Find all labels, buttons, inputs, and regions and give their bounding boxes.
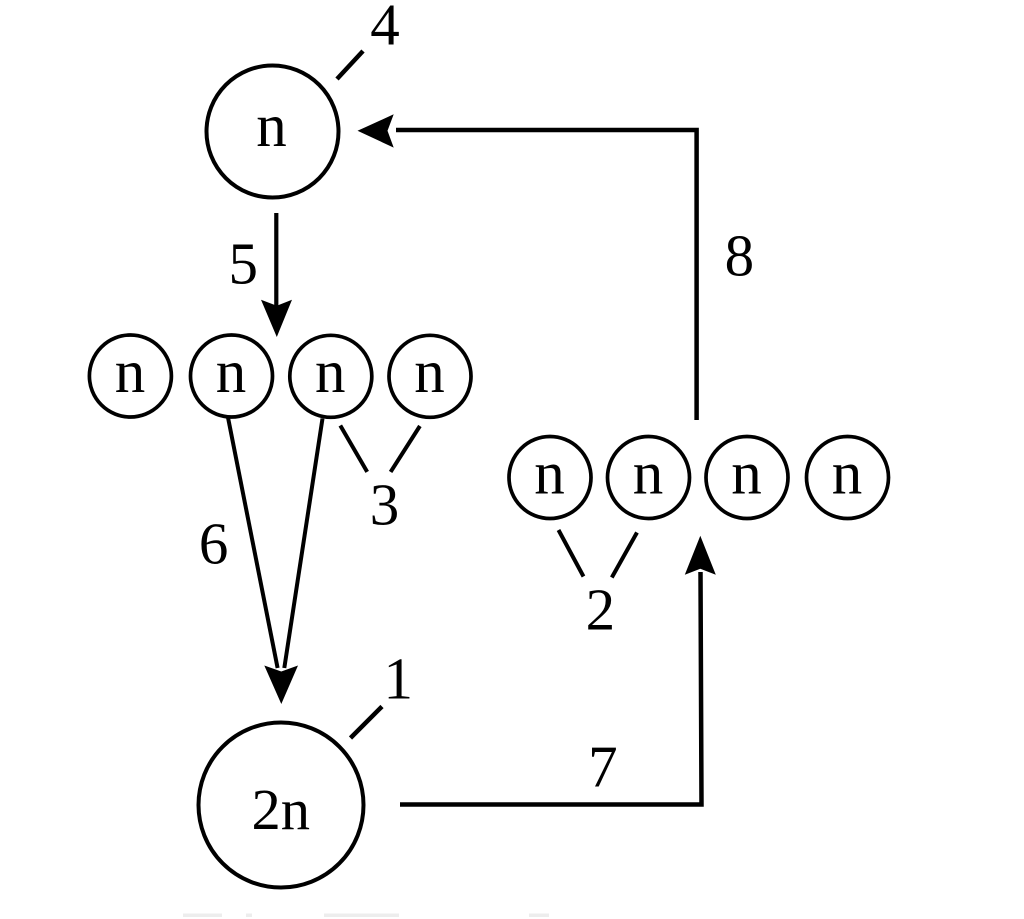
arrow 7 shaft (right then up)	[400, 572, 702, 805]
arrow 6 left shaft	[228, 418, 278, 669]
svg-text:n: n	[115, 339, 146, 406]
node top cell circle (n)	[207, 66, 339, 198]
brace line 3 left	[340, 426, 367, 472]
svg-text:1: 1	[383, 646, 413, 712]
svg-text:2: 2	[586, 577, 616, 643]
svg-text:8: 8	[725, 222, 755, 288]
brace line 2 right	[612, 533, 637, 578]
faint cropped caption marks at bottom	[183, 914, 549, 918]
svg-text:n: n	[256, 93, 287, 160]
brace line 2 left	[559, 530, 584, 577]
svg-text:3: 3	[370, 472, 400, 538]
tick line to label 4	[337, 51, 363, 79]
arrow 8 head	[358, 114, 394, 147]
node right row cell 1 (n)	[509, 437, 591, 519]
tick line to label 1	[351, 707, 383, 739]
svg-text:n: n	[731, 441, 762, 508]
node left row cell 3 (n)	[290, 335, 372, 417]
svg-text:n: n	[832, 441, 863, 508]
node right row cell 2 (n)	[608, 437, 690, 519]
node left row cell 4 (n)	[389, 335, 471, 417]
svg-text:7: 7	[588, 734, 618, 800]
brace line 3 right	[391, 426, 420, 472]
arrow 8 shaft (up then left)	[396, 130, 697, 420]
svg-text:n: n	[633, 441, 664, 508]
svg-text:2n: 2n	[251, 777, 310, 842]
svg-text:n: n	[414, 339, 445, 406]
svg-text:n: n	[534, 441, 565, 508]
arrow 5 head	[261, 300, 292, 337]
svg-text:4: 4	[370, 0, 400, 58]
svg-text:6: 6	[199, 511, 229, 577]
node right row cell 4 (n)	[807, 437, 889, 519]
node right row cell 3 (n)	[706, 437, 788, 519]
node left row cell 2 (n)	[191, 335, 273, 417]
arrow 5 shaft	[274, 213, 278, 307]
node bottom cell circle (2n)	[199, 723, 364, 888]
node left row cell 1 (n)	[89, 335, 171, 417]
arrow 6 right shaft	[284, 419, 322, 669]
svg-text:n: n	[315, 339, 346, 406]
arrow 6 head	[264, 666, 298, 705]
svg-text:5: 5	[229, 231, 259, 297]
svg-text:n: n	[216, 339, 247, 406]
arrow 7 head	[685, 536, 716, 575]
